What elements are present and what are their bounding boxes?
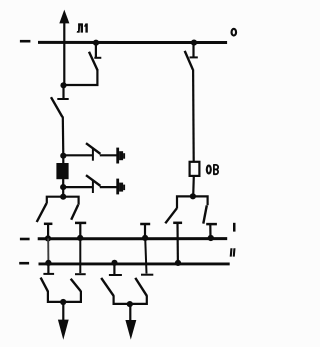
plug link 1 wire bbox=[100, 154, 117, 156]
OB bay bus-II selector blade (open) bbox=[165, 208, 177, 223]
branch arm 1: wire from breaker top to plug link bbox=[63, 154, 92, 156]
plug link 1 plug tip bbox=[123, 153, 125, 159]
OB bay bus-I selector blade (open) bbox=[203, 205, 207, 223]
line disconnector blade bbox=[51, 97, 62, 117]
bus I left dash bbox=[20, 238, 30, 241]
feeder 1 bus-I disconnector blade bbox=[71, 279, 81, 292]
plug link 1 socket bar bbox=[116, 148, 119, 164]
feeder 1 bus-I disconnector tick bbox=[75, 273, 86, 275]
branch arm 2: wire from breaker bottom to plug link bbox=[63, 186, 92, 188]
bus 0 left dash bbox=[20, 40, 31, 43]
node on bus I at x=80 bbox=[77, 235, 83, 241]
wire: disconnector to OB breaker bbox=[192, 69, 195, 161]
label OB bbox=[207, 165, 218, 175]
wire: x=48 column between bus I and bus II bbox=[47, 238, 49, 263]
label 0 bbox=[232, 29, 237, 36]
wire: x=80 column crossing bus II bbox=[79, 238, 81, 273]
OB bay disconnector stub bbox=[192, 43, 194, 58]
node on bus II at x=178 bbox=[175, 260, 181, 266]
L1 bay bus-II selector: arm and stub bbox=[63, 197, 78, 205]
plug link 2 plug tip bbox=[123, 185, 125, 191]
node on bus II at x=48 bbox=[45, 260, 51, 266]
feeder 2 bus-I disconnector tick bbox=[141, 274, 153, 276]
bypass disconnector fixed-contact tick bbox=[94, 57, 101, 59]
node on bus II at x=114 bbox=[111, 260, 117, 266]
feeder 1 node bbox=[60, 299, 66, 305]
wire: bypass branch down and left to node A bbox=[64, 70, 98, 85]
OB bay disconnector fixed-contact tick bbox=[190, 56, 198, 58]
wire: feeder 2 left branch to node bbox=[114, 295, 130, 304]
bus II left dash bbox=[19, 262, 29, 265]
node on bus I at x=211 bbox=[208, 235, 214, 241]
node on bus I at x=145 bbox=[142, 235, 148, 241]
L1 bay bus-II selector blade (open) bbox=[71, 205, 78, 220]
node C (breaker top) bbox=[60, 153, 66, 159]
node on bus I at x=48 bbox=[45, 235, 51, 241]
node D (breaker bottom) bbox=[60, 184, 66, 190]
bypass disconnector QS (stub) bbox=[95, 43, 97, 58]
node E (bus-selector fork) bbox=[60, 194, 66, 200]
node A (L1 line / bypass junction) bbox=[60, 82, 66, 88]
wire: feeder 2 right branch to node bbox=[130, 295, 147, 304]
label I bbox=[233, 223, 236, 232]
feeder 1 bus-II disconnector stub bbox=[47, 263, 49, 273]
bus I bbox=[38, 237, 228, 240]
bus 0 bbox=[38, 41, 227, 44]
node: bus 0 tap for bypass-breaker bay bbox=[191, 40, 197, 46]
feeder 2 outgoing arrow bbox=[125, 304, 136, 340]
wire D to E bbox=[62, 187, 64, 197]
plug link 1 plug body bbox=[119, 151, 123, 160]
L1 bay bus-II selector fixed contact T bbox=[75, 223, 86, 238]
feeder 2 bus-I fixed contact T above bus I bbox=[140, 224, 150, 238]
bypass disconnector blade bbox=[89, 52, 98, 71]
node: bus 0 tap for bypass disconnector bbox=[93, 40, 99, 46]
feeder 2 node bbox=[127, 301, 133, 307]
wire: feeder 1 left branch to node bbox=[48, 291, 63, 302]
line disconnector fixed-contact tick bbox=[57, 98, 68, 100]
feeder 2 bus-II disconnector stub bbox=[113, 263, 115, 274]
L1 bay bus-I selector fixed contact T bbox=[44, 224, 53, 239]
label L1 bbox=[77, 23, 88, 32]
wire: feeder 1 right branch to node bbox=[63, 291, 81, 302]
wire: OB breaker to fork bbox=[192, 176, 195, 197]
feeder 2 bus-II disconnector tick bbox=[109, 274, 122, 276]
plug link 2 socket bar bbox=[116, 179, 119, 195]
plug link 2 plug body bbox=[119, 183, 123, 192]
bypass circuit breaker OB (open, hollow) bbox=[190, 162, 200, 176]
feeder 1 outgoing arrow bbox=[58, 302, 69, 340]
plug link 1 fixed-contact tick bbox=[92, 148, 94, 160]
circuit breaker Q1 (closed, filled) bbox=[56, 156, 68, 187]
plug link 1 blade bbox=[86, 143, 100, 154]
feeder 1 bus-II disconnector tick bbox=[43, 273, 54, 275]
L1 bay bus-I selector blade (open) bbox=[37, 203, 47, 222]
feeder 2 bus-II disconnector blade bbox=[101, 278, 113, 296]
plug link 2 fixed-contact tick bbox=[92, 180, 94, 193]
line disconnector stub bbox=[62, 85, 64, 99]
line L1 arrow (to line) bbox=[59, 10, 69, 86]
plug link 2 wire bbox=[100, 186, 117, 188]
wire: disconnector to breaker bbox=[62, 117, 65, 156]
bus II bbox=[39, 262, 230, 265]
wire: x=145 column crossing bus II bbox=[145, 238, 146, 274]
L1 bay bus-I selector: arm and stub bbox=[47, 197, 63, 204]
OB bay bus-I selector fixed contact T bbox=[206, 224, 217, 238]
feeder 1 bus-II disconnector blade bbox=[41, 278, 48, 292]
label II bbox=[230, 248, 236, 256]
plug link 2 blade bbox=[86, 175, 100, 186]
feeder 2 bus-I disconnector blade bbox=[135, 278, 147, 296]
OB bay fork node bbox=[190, 193, 196, 199]
OB bay bus-I selector: arm and stub bbox=[193, 196, 208, 205]
OB bay bus-II selector fixed contact T bbox=[173, 223, 182, 264]
OB bay disconnector blade bbox=[185, 51, 193, 70]
OB bay bus-II selector: arm and stub bbox=[177, 196, 193, 208]
